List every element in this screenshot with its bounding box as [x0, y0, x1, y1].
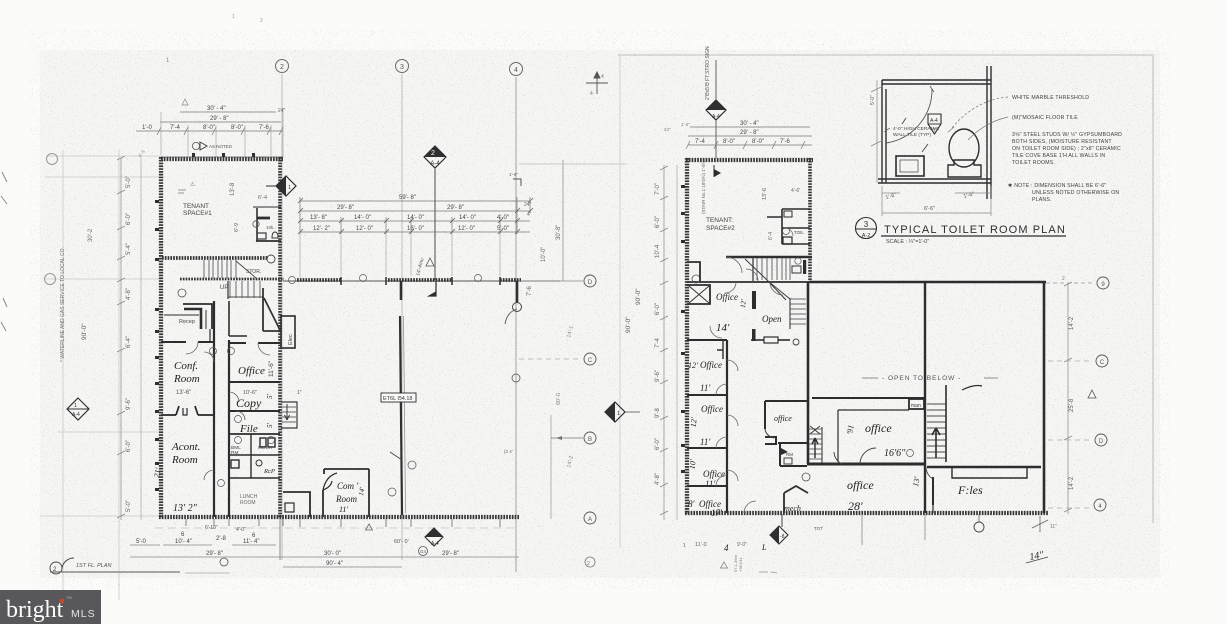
- svg-text:30'-2: 30'-2: [88, 228, 94, 242]
- triangle keynote near grid3: [426, 258, 434, 266]
- svg-text:4: 4: [514, 67, 518, 74]
- wall: left plan north wall (hatched): [161, 157, 283, 161]
- RM box right of stair: [792, 266, 801, 273]
- svg-text:B: B: [588, 437, 592, 443]
- svg-text:ROOM: ROOM: [240, 500, 256, 506]
- left edge grid bubble upper: [47, 154, 58, 165]
- svg-text:8'-0": 8'-0": [203, 125, 215, 131]
- svg-text:4'-0" HIGH CERAMIC: 4'-0" HIGH CERAMIC: [893, 126, 940, 132]
- svg-text:29'- 8": 29'- 8": [447, 205, 464, 211]
- triangle note above tenant: [182, 99, 188, 105]
- circled 1 near partition: [408, 461, 416, 469]
- north flag in tenant2: [714, 169, 721, 177]
- wall office2/office3: [687, 394, 727, 396]
- sign flag diamond on right plan top: [706, 60, 726, 158]
- office north door arc: [258, 343, 270, 355]
- svg-text:MLS: MLS: [71, 608, 96, 620]
- svg-text:Copy: Copy: [236, 396, 262, 410]
- svg-text:5'-0": 5'-0": [126, 176, 132, 188]
- svg-text:29' - 8": 29' - 8": [740, 130, 759, 136]
- svg-text:(STAIR No.1 18'Θ½) 1'-8½: (STAIR No.1 18'Θ½) 1'-8½: [700, 160, 706, 214]
- stair arrow right: [932, 428, 940, 458]
- svg-text:12': 12': [739, 299, 748, 309]
- svg-text:12'- 0": 12'- 0": [458, 226, 475, 232]
- svg-text:21': 21': [152, 467, 163, 478]
- bottom right ticks near wall: [1032, 516, 1048, 532]
- svg-text:3⅝" STEEL STUDS W/ ½" GYPSUMBO: 3⅝" STEEL STUDS W/ ½" GYPSUMBOARD: [1012, 131, 1122, 138]
- faint vertical scan line left 2: [118, 150, 120, 600]
- svg-text:14'-2: 14'-2: [1069, 476, 1075, 490]
- toilet detail left wall: [882, 80, 886, 183]
- wall: big room east wall: [1043, 281, 1046, 513]
- svg-text:AS NOTED: AS NOTED: [209, 144, 233, 149]
- svg-text:1: 1: [232, 14, 235, 20]
- second left dim line: [140, 158, 142, 520]
- man closet: [909, 399, 924, 409]
- faint horizontal line upper left: [46, 155, 163, 157]
- toilet detail door arc: [886, 89, 932, 143]
- scan tint over sheet area: [40, 50, 1160, 578]
- svg-text:10'- 4": 10'- 4": [175, 539, 192, 545]
- leader floor tile: [968, 117, 1008, 140]
- svg-text:TOT: TOT: [814, 526, 823, 531]
- vertical faint line x551: [550, 415, 552, 519]
- svg-text:Elec: Elec: [288, 334, 294, 345]
- svg-text:10': 10': [688, 459, 698, 470]
- logo box: [0, 590, 101, 624]
- svg-text:6'-0": 6'-0": [655, 216, 661, 228]
- circled G4 bottom: [419, 547, 428, 556]
- svg-text:4: 4: [724, 543, 729, 553]
- svg-text:12': 12': [689, 417, 699, 428]
- svg-text:4: 4: [601, 74, 604, 80]
- svg-text:13'- 8": 13'- 8": [310, 215, 327, 221]
- dim chain line w ticks: [136, 127, 283, 135]
- slanted dim ticks: [298, 198, 533, 234]
- svg-text:25'-8: 25'-8: [1069, 398, 1075, 412]
- svg-text:2: 2: [280, 64, 284, 71]
- column stub at grid4: [516, 281, 519, 303]
- svg-text:(M)"MOSAIC FLOOR TILE: (M)"MOSAIC FLOOR TILE: [1012, 115, 1078, 121]
- small room at SE corner of office block: [283, 492, 310, 517]
- right plan right dim line: [1067, 284, 1069, 514]
- toilet detail sink: [896, 156, 924, 176]
- wall office1/office2: [687, 339, 727, 341]
- closet circled tag: [253, 221, 259, 227]
- svg-text:A: A: [588, 517, 592, 523]
- svg-text:7'-6: 7'-6: [527, 286, 533, 296]
- svg-text:4'-6': 4'-6': [791, 188, 800, 194]
- com room walls: [323, 469, 369, 517]
- stor room (right of recep): [229, 301, 247, 336]
- svg-text:A-4: A-4: [431, 541, 439, 547]
- circled door tags in office block: [210, 348, 275, 487]
- svg-text:Conf.: Conf.: [174, 360, 198, 372]
- svg-text:TILE COVE BASE 1'H ALL WALLS I: TILE COVE BASE 1'H ALL WALLS IN: [1012, 153, 1105, 159]
- AS NOTED flag: [200, 142, 207, 150]
- svg-text:13'-6": 13'-6": [176, 390, 191, 396]
- wall: left plan west wall (hatched): [159, 157, 163, 518]
- stair rail line: [752, 258, 754, 281]
- svg-text:6'-0": 6'-0": [126, 213, 132, 225]
- svg-text:TOIL: TOIL: [794, 230, 804, 235]
- dim line 30-4: [180, 111, 276, 113]
- svg-text:29'- 8": 29'- 8": [337, 205, 354, 211]
- wc circle fixture: [256, 460, 262, 466]
- toilet rooms top right of tenant2: [767, 209, 810, 244]
- svg-text:G4: G4: [420, 549, 427, 554]
- vertical ticks below big room: [924, 514, 926, 540]
- svg-text:TM: TM: [66, 595, 72, 600]
- wall: right plan east wall upper (tenant2): [808, 158, 812, 284]
- svg-text:C: C: [588, 358, 593, 364]
- middle stair (x808-822): [809, 429, 822, 463]
- svg-text:13'-6: 13'-6: [762, 188, 768, 200]
- RM door flag: [781, 448, 788, 455]
- wall office3/office4: [687, 447, 727, 449]
- svg-text:Office: Office: [703, 469, 725, 479]
- closet fixture sink: [257, 233, 266, 239]
- svg-text:office: office: [774, 414, 792, 423]
- svg-text:4'-8": 4'-8": [126, 288, 132, 300]
- leader threshold: [952, 97, 1008, 128]
- svg-text:TENANT: TENANT: [183, 203, 209, 210]
- svg-text:10k..: 10k..: [266, 225, 276, 230]
- svg-text:10'-4: 10'-4: [655, 244, 661, 258]
- diamond symbol 1/A-4 right of tenant1: [266, 176, 296, 196]
- svg-text:7'-4: 7'-4: [655, 338, 661, 348]
- section cut flag at x436: [429, 281, 436, 296]
- svg-text:RM: RM: [786, 452, 793, 457]
- title underline: [881, 235, 1066, 237]
- circled tag near mech: [802, 473, 810, 481]
- svg-text:WALL TILE (TYP): WALL TILE (TYP): [893, 132, 931, 138]
- svg-text:6'-4": 6'-4": [126, 336, 132, 348]
- svg-text:Office: Office: [701, 404, 723, 414]
- svg-text:59'- 8": 59'- 8": [399, 195, 416, 201]
- svg-text:12'- 0": 12'- 0": [356, 226, 373, 232]
- office room east column: office/copy wall: [229, 381, 280, 383]
- svg-text:4': 4': [527, 212, 531, 218]
- svg-text:Open: Open: [762, 314, 782, 324]
- svg-text:Acont.: Acont.: [171, 441, 200, 453]
- svg-text:5': 5': [266, 423, 274, 429]
- svg-text:(2 4': (2 4': [504, 449, 513, 454]
- wall copy/file: [229, 410, 280, 412]
- faint horizontal line mid left: [44, 278, 162, 280]
- svg-text:30' - 4": 30' - 4": [207, 106, 226, 112]
- svg-text:L: L: [761, 543, 767, 552]
- svg-text:90'-0": 90'-0": [635, 288, 642, 305]
- wall: big room north wall: [810, 281, 1046, 284]
- toilet detail water closet: [949, 129, 979, 167]
- svg-text:Com ′: Com ′: [337, 481, 359, 491]
- left dim chain vertical: [120, 158, 122, 520]
- svg-text:2: 2: [431, 150, 435, 157]
- svg-text:10'-0": 10'-0": [541, 247, 547, 262]
- svg-text:A-4: A-4: [712, 114, 720, 120]
- svg-text:60'-0: 60'-0: [556, 393, 562, 405]
- svg-text:28': 28': [848, 499, 863, 513]
- svg-text:6'-6": 6'-6": [924, 206, 935, 212]
- svg-text:24": 24": [278, 108, 286, 114]
- svg-text:4: 4: [590, 91, 593, 97]
- corridor wall right plan: [726, 340, 728, 513]
- toilet detail bottom wall: [878, 179, 991, 183]
- svg-text:RM: RM: [231, 450, 238, 456]
- wall: left plan south wall (hatched storefront base): [159, 515, 519, 519]
- svg-text:2'-8: 2'-8: [216, 536, 226, 542]
- svg-text:7'-6: 7'-6: [780, 139, 790, 145]
- right plan west wall window ticks: [681, 185, 685, 473]
- svg-text:C: C: [1100, 360, 1105, 366]
- svg-text:5'-4": 5'-4": [126, 243, 132, 255]
- toilet room door arcs: [785, 228, 793, 236]
- svg-text:30'-8": 30'-8": [556, 225, 562, 240]
- right plan stair treads upper: [757, 258, 790, 280]
- mech room right plan: [784, 486, 808, 513]
- dim extension verticals: [161, 108, 283, 157]
- door arcs corridor: [204, 352, 239, 480]
- svg-text:MECH: MECH: [258, 445, 273, 451]
- svg-text:24": 24": [664, 127, 671, 132]
- svg-text:6'-4: 6'-4: [258, 195, 267, 201]
- svg-text:STOR.: STOR.: [246, 269, 261, 275]
- dim drop lines to storefront: [300, 234, 500, 278]
- com room door arc: [323, 473, 337, 490]
- door arc office2: [716, 384, 727, 395]
- svg-text:5': 5': [266, 394, 274, 400]
- svg-text:6'-4: 6'-4: [768, 232, 774, 240]
- svg-text:Office: Office: [700, 360, 722, 370]
- storefront head thin line: [283, 280, 560, 282]
- svg-text:office: office: [865, 421, 892, 435]
- faint horizontal line lower left: [58, 431, 158, 433]
- svg-text:90'- 4": 90'- 4": [326, 561, 343, 567]
- svg-text:Office: Office: [716, 292, 738, 302]
- door opening arc 16-6 office: [860, 448, 876, 464]
- svg-text:1: 1: [617, 411, 620, 417]
- svg-text:6'-10": 6'-10": [205, 525, 218, 531]
- circled M near partition bottom: [388, 488, 396, 496]
- wall: central vertical wall right plan: [807, 282, 810, 464]
- wall: dark south wall of 16-6 office: [807, 463, 925, 466]
- middle office door arc: [765, 429, 774, 438]
- svg-text:2: 2: [260, 18, 263, 24]
- office1 south stub: [717, 341, 723, 359]
- svg-text:2: 2: [1062, 276, 1065, 282]
- grid bubble 3: [396, 60, 409, 73]
- dim ticks rows: [300, 197, 530, 234]
- faint baseline continuation left: [40, 515, 160, 517]
- circled tag above recep: [178, 289, 186, 297]
- logo orange mark: [60, 599, 65, 604]
- door swing bottom of partition: [390, 452, 402, 460]
- svg-text:11'-0: 11'-0: [695, 542, 707, 548]
- svg-text:8': 8': [688, 499, 696, 509]
- svg-text:'91: '91: [845, 424, 856, 435]
- exterior stair east of wall: [281, 402, 297, 428]
- svg-text:UP: UP: [220, 285, 228, 291]
- svg-text:UNLESS NOTED OTHERWISE ON: UNLESS NOTED OTHERWISE ON: [1032, 190, 1119, 196]
- svg-text:7'-4: 7'-4: [695, 139, 705, 145]
- svg-text:✱ NOTE : DIMENSION SHALL BE 6: ✱ NOTE : DIMENSION SHALL BE 6'-6": [1008, 183, 1106, 189]
- circled tag at left wall stair: [692, 275, 700, 283]
- svg-text:30'- 0": 30'- 0": [324, 551, 341, 557]
- svg-text:F:les: F:les: [957, 483, 983, 497]
- wall: stair hall north wall: [162, 256, 268, 260]
- svg-text:SCALE : ¼"=1'-0": SCALE : ¼"=1'-0": [886, 239, 929, 245]
- svg-text:16'6": 16'6": [884, 448, 906, 459]
- door arcs office1: [710, 282, 783, 338]
- north wall window ticks: [192, 153, 255, 157]
- right sheet left faint line: [619, 56, 621, 548]
- svg-text:14'-2: 14'-2: [1069, 316, 1075, 330]
- svg-text:PLANS.: PLANS.: [1032, 197, 1052, 203]
- conf door arc: [186, 342, 198, 354]
- svg-text:90'-0": 90'-0": [81, 323, 88, 340]
- svg-text:7'-0": 7'-0": [655, 183, 661, 195]
- svg-text:9'-6": 9'-6": [655, 370, 661, 382]
- wall file/mech: [229, 433, 280, 435]
- recep desk walls: [164, 304, 212, 341]
- right big stair: [927, 404, 946, 458]
- svg-text:11': 11': [700, 383, 711, 393]
- corridor west wall: [213, 301, 215, 517]
- 16-6 office room walls: [812, 398, 924, 462]
- small circle on grid4: [513, 303, 522, 312]
- title circle 3/A-2: [856, 218, 877, 239]
- pen tick marks: [902, 118, 928, 152]
- svg-text:A-4: A-4: [72, 412, 80, 418]
- door leaf office1 south: [752, 329, 756, 341]
- svg-text:5'-0": 5'-0": [126, 500, 132, 512]
- tenant space 1 closet walls: [253, 207, 281, 241]
- svg-text:13' 2": 13' 2": [173, 503, 198, 514]
- wall conf/acont with double doors: [161, 406, 214, 415]
- wall: mid vertical wall x925: [924, 283, 926, 513]
- svg-text:14': 14': [716, 322, 730, 334]
- open area small rect fixture: [764, 337, 778, 343]
- door leaf office1: [752, 291, 756, 309]
- title mark 1st floor plan: [50, 562, 62, 574]
- ETBL tag box: [381, 393, 416, 402]
- under-stair wedge: [263, 288, 281, 331]
- RM small room walls: [780, 444, 807, 466]
- svg-text:1'-6": 1'-6": [509, 172, 518, 177]
- svg-text:4'-8": 4'-8": [655, 473, 661, 485]
- svg-text:13': 13': [911, 476, 922, 487]
- right sheet grid bubbles: [1046, 282, 1095, 284]
- svg-text:11'-6": 11'-6": [268, 360, 275, 377]
- storefront hatched segment 2: [388, 278, 452, 282]
- closet toilet: [272, 232, 278, 238]
- storefront hatched segment 1: [297, 278, 341, 282]
- vestibule walls left: [687, 262, 710, 304]
- grid bubble B with arrow: [551, 437, 583, 439]
- grid bubble A: [584, 512, 596, 524]
- column grid line 2: [281, 74, 283, 560]
- svg-text:1: 1: [683, 543, 686, 549]
- svg-text:Office: Office: [238, 365, 265, 377]
- svg-text:ET6L Θ4.18: ET6L Θ4.18: [383, 396, 412, 402]
- svg-text:1: 1: [288, 185, 291, 191]
- svg-text:3: 3: [864, 220, 869, 229]
- svg-text:11': 11': [700, 437, 711, 447]
- tick marks bottom wall: [186, 519, 500, 527]
- svg-text:BOTH SIDES, (MOISTURE RESISTAN: BOTH SIDES, (MOISTURE RESISTANT: [1012, 139, 1112, 145]
- north arrow: [586, 72, 608, 94]
- corridor east wall: [228, 340, 230, 517]
- diamond 1/A-4 left of right plan: [605, 402, 640, 422]
- stair arrow middle: [812, 438, 818, 458]
- misc small marks in tenant1: [178, 190, 186, 193]
- faint vertical scan line far left: [62, 150, 64, 605]
- svg-text:8'-0": 8'-0": [723, 139, 735, 145]
- svg-text:30' - 4": 30' - 4": [740, 121, 759, 127]
- svg-text:14'- 0": 14'- 0": [354, 215, 371, 221]
- stair X mark: [810, 426, 820, 434]
- open stair upper right plan: [790, 299, 806, 324]
- svg-text:A-4: A-4: [430, 161, 440, 167]
- svg-text:- OPEN TO BELOW -: - OPEN TO BELOW -: [882, 375, 961, 382]
- svg-text:mech: mech: [784, 504, 801, 513]
- svg-text:TENANT:: TENANT:: [706, 217, 733, 224]
- right sheet top faint line: [618, 54, 1154, 56]
- svg-text:1'-2": 1'-2": [681, 122, 690, 127]
- stair lower rail: [227, 281, 229, 299]
- left page-edge scan marks: [1, 172, 7, 331]
- svg-text:14'- 0": 14'- 0": [407, 215, 424, 221]
- svg-text:14'- 0": 14'- 0": [459, 215, 476, 221]
- svg-text:D: D: [1099, 439, 1104, 445]
- svg-text:1'-0: 1'-0: [142, 125, 152, 131]
- toilet detail top wall: [882, 80, 991, 84]
- wall: stair hall south wall: [180, 278, 284, 281]
- grid bubble D with leader: [519, 280, 583, 282]
- svg-text:TOILET ROOMS.: TOILET ROOMS.: [1012, 160, 1055, 166]
- svg-text:12'- 2": 12'- 2": [313, 226, 330, 232]
- svg-text:1: 1: [74, 403, 77, 409]
- wall: left plan east wall of office block: [278, 157, 282, 518]
- left edge grid bubble lower: [45, 274, 56, 285]
- diamond A-4 left margin: [67, 398, 89, 420]
- svg-text:11": 11": [1050, 524, 1057, 530]
- wall conf room north: [161, 341, 214, 343]
- circled 2 small right bottom: [585, 557, 595, 567]
- faint horizontal top right: [519, 163, 627, 165]
- svg-text:SPACE#1: SPACE#1: [183, 210, 212, 217]
- mech/toilet partitions: [229, 434, 280, 478]
- svg-text:29'- 8": 29'- 8": [442, 551, 459, 557]
- wall under stair hall (floor line): [687, 281, 810, 283]
- west wall window ticks: [155, 200, 159, 491]
- svg-text:TYPICAL TOILET ROOM PLAN: TYPICAL TOILET ROOM PLAN: [884, 224, 1066, 236]
- stair flight upper treads: [204, 260, 236, 278]
- svg-text:A-4: A-4: [930, 118, 938, 124]
- svg-text:1ST FL. PLAN: 1ST FL. PLAN: [76, 563, 111, 569]
- stair door arcs: [726, 257, 742, 273]
- svg-text:6'-0": 6'-0": [655, 438, 661, 450]
- svg-text:9'-0": 9'-0": [737, 542, 747, 548]
- svg-text:+36'4'11: +36'4'11: [738, 557, 743, 572]
- middle office room: [765, 401, 808, 444]
- svg-text:man: man: [911, 403, 921, 409]
- grid bubble C: [519, 358, 581, 360]
- stair upper diagonal: [236, 261, 256, 278]
- svg-text:29' - 8": 29' - 8": [210, 116, 229, 122]
- svg-text:12': 12': [688, 361, 698, 370]
